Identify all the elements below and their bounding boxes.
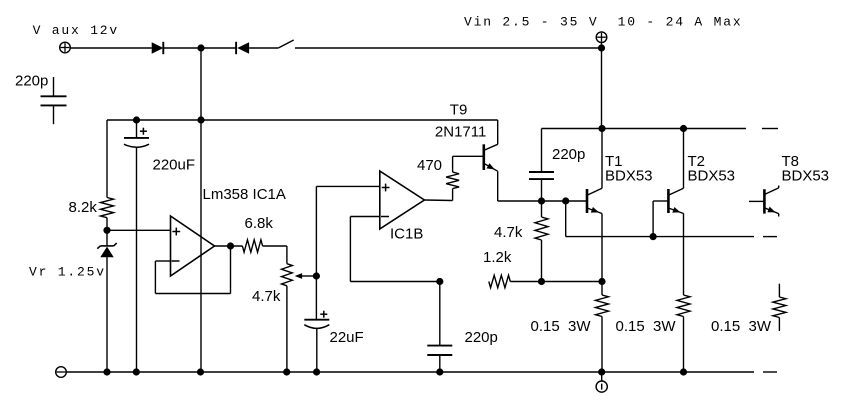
- svg-text:BDX53: BDX53: [605, 168, 653, 185]
- svg-text:Vr 1.25v: Vr 1.25v: [29, 265, 106, 280]
- svg-text:BDX53: BDX53: [782, 168, 830, 185]
- svg-text:V aux 12v: V aux 12v: [33, 23, 119, 38]
- svg-text:220uF: 220uF: [153, 157, 196, 174]
- svg-text:1.2k: 1.2k: [483, 249, 512, 266]
- svg-text:8.2k: 8.2k: [69, 199, 98, 216]
- svg-text:220p: 220p: [465, 329, 498, 346]
- svg-text:220p: 220p: [552, 146, 585, 163]
- svg-text:4.7k: 4.7k: [494, 224, 523, 241]
- svg-text:0.15 3W: 0.15 3W: [531, 318, 592, 335]
- svg-text:Lm358 IC1A: Lm358 IC1A: [203, 186, 286, 203]
- svg-text:22uF: 22uF: [330, 329, 364, 346]
- svg-text:IC1B: IC1B: [390, 226, 423, 243]
- svg-text:0.15 3W: 0.15 3W: [711, 318, 772, 335]
- svg-text:0.15 3W: 0.15 3W: [616, 318, 677, 335]
- svg-text:470: 470: [417, 157, 442, 174]
- svg-text:4.7k: 4.7k: [252, 288, 281, 305]
- svg-text:BDX53: BDX53: [688, 168, 736, 185]
- svg-text:Vin 2.5 - 35 V 10 - 24 A Max: Vin 2.5 - 35 V 10 - 24 A Max: [464, 14, 742, 29]
- svg-text:220p: 220p: [15, 73, 48, 90]
- svg-text:2N1711: 2N1711: [435, 124, 486, 141]
- svg-text:T9: T9: [450, 102, 468, 119]
- svg-text:6.8k: 6.8k: [245, 215, 274, 232]
